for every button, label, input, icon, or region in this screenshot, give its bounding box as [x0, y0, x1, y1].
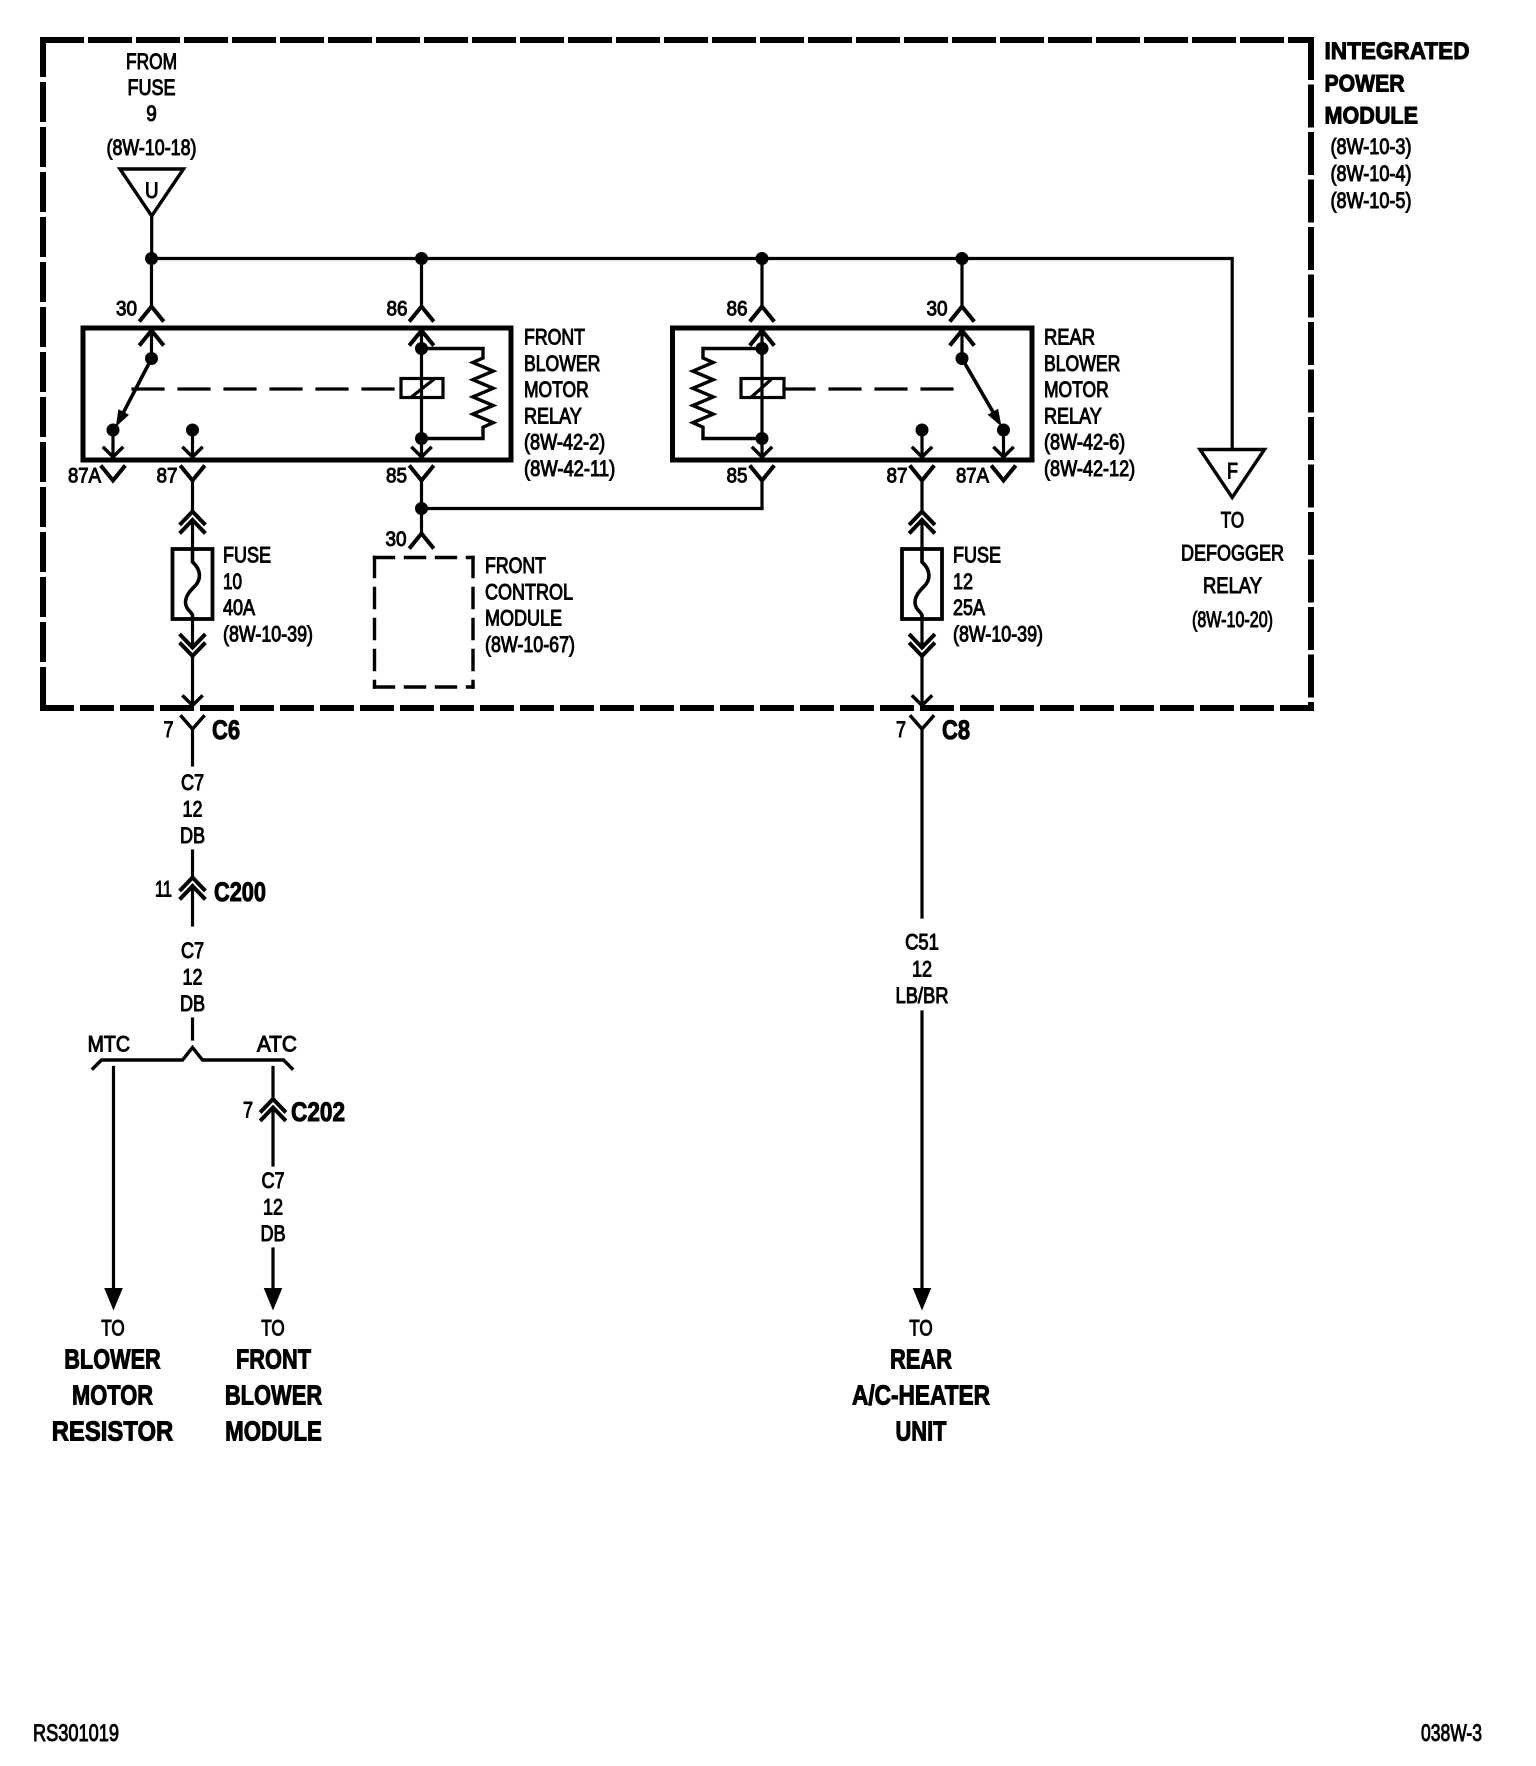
svg-text:MODULE: MODULE	[485, 606, 562, 631]
label: INTEGRATED POWER MODULE	[1325, 38, 1470, 213]
wire: coil through right	[760, 349, 763, 439]
svg-text:(8W-10-3): (8W-10-3)	[1331, 134, 1412, 159]
svg-text:(8W-42-12): (8W-42-12)	[1044, 456, 1135, 481]
svg-text:(8W-10-67): (8W-10-67)	[485, 632, 575, 657]
svg-text:DB: DB	[180, 823, 205, 848]
coil top junction right relay	[756, 342, 769, 355]
wire to rear a/c-heater unit	[920, 1012, 923, 1289]
wire: B+ bus to defogger relay corner	[152, 259, 1233, 450]
svg-text:A/C-HEATER: A/C-HEATER	[852, 1380, 990, 1411]
label: FROM FUSE 9 (8W-10-18)	[107, 49, 197, 160]
coil bottom junction right relay	[756, 432, 769, 445]
svg-text:MTC: MTC	[88, 1032, 130, 1057]
svg-text:TO: TO	[909, 1316, 932, 1341]
svg-text:85: 85	[727, 465, 748, 488]
arrow: 87A to box edge right	[1002, 430, 1005, 457]
label: TO DEFOGGER RELAY (8W-10-20)	[1181, 508, 1284, 633]
switch contact junction 87A right	[997, 424, 1010, 437]
wire: pin 30 to switch pivot	[150, 331, 153, 359]
wire: 87 left to fuse 10	[191, 481, 194, 513]
wire: triangle U down to bus	[150, 216, 153, 259]
switch arm (30 to 87A)	[124, 359, 152, 413]
wire label C51 12 LB/BR	[896, 930, 949, 1009]
relay coil winding (resistor zigzag) right relay	[693, 349, 762, 439]
pin 30 chevron inside left relay	[141, 331, 163, 345]
svg-text:TO: TO	[261, 1316, 284, 1341]
svg-text:UNIT: UNIT	[896, 1416, 947, 1447]
switch pivot junction	[145, 352, 158, 365]
label: TO FRONT BLOWER MODULE	[225, 1316, 322, 1447]
label: REAR BLOWER MOTOR RELAY	[1044, 325, 1135, 482]
power out triangle F (to defogger relay)	[1200, 450, 1265, 498]
svg-text:REAR: REAR	[890, 1344, 952, 1375]
brace split MTC/ATC	[93, 1048, 292, 1069]
wire: pin 86 to coil	[760, 331, 763, 349]
svg-text:12: 12	[182, 965, 202, 990]
svg-text:7: 7	[243, 1098, 253, 1123]
svg-text:25A: 25A	[953, 595, 985, 620]
svg-text:40A: 40A	[223, 595, 255, 620]
relay coil box symbol right relay	[741, 379, 784, 398]
svg-text:BLOWER: BLOWER	[64, 1344, 161, 1375]
wire: bus drop	[420, 259, 423, 307]
svg-text:86: 86	[387, 298, 408, 321]
svg-text:87: 87	[157, 465, 178, 488]
svg-text:DB: DB	[180, 991, 205, 1016]
inline connector chevrons above fuse 10	[181, 512, 204, 524]
front control module dashed box	[375, 558, 474, 688]
svg-text:DB: DB	[260, 1221, 285, 1246]
svg-text:FUSE: FUSE	[953, 543, 1001, 568]
junction 85 net	[415, 502, 428, 515]
wire: bus drop	[150, 259, 153, 307]
svg-text:FRONT: FRONT	[485, 553, 546, 578]
connector pin chevron	[411, 307, 433, 321]
svg-text:87: 87	[887, 465, 908, 488]
svg-text:(8W-42-2): (8W-42-2)	[524, 430, 605, 455]
svg-text:9: 9	[146, 101, 157, 126]
svg-text:12: 12	[912, 957, 932, 982]
svg-text:7: 7	[896, 717, 906, 742]
junction on bus at pin 30 right relay	[956, 252, 969, 265]
junction on bus at pin 86 right relay	[756, 252, 769, 265]
coil top junction	[415, 342, 428, 355]
arrow to front blower module	[264, 1288, 283, 1311]
connector C8 female half	[911, 717, 933, 730]
switch arm right relay (30 to 87A)	[962, 359, 993, 412]
svg-text:FUSE: FUSE	[128, 75, 176, 100]
wire: 87 right to fuse 12	[920, 481, 923, 513]
pin 87A connector chevron below relay	[993, 467, 1015, 481]
svg-text:LB/BR: LB/BR	[896, 983, 949, 1008]
svg-text:REAR: REAR	[1044, 325, 1095, 350]
arrow: coil 85 to box edge right	[760, 439, 763, 457]
svg-text:87A: 87A	[68, 465, 101, 488]
label: FRONT BLOWER MOTOR RELAY	[524, 325, 615, 482]
pin 86 chevron inside left relay	[411, 331, 433, 345]
svg-text:7: 7	[164, 717, 174, 742]
svg-text:BLOWER: BLOWER	[524, 351, 600, 376]
svg-text:(8W-10-39): (8W-10-39)	[953, 621, 1043, 646]
svg-text:(8W-42-11): (8W-42-11)	[524, 456, 615, 481]
label: FRONT CONTROL MODULE (8W-10-67)	[485, 553, 575, 657]
svg-text:038W-3: 038W-3	[1421, 1720, 1482, 1747]
wire label C7 12 DB	[180, 770, 205, 848]
svg-text:RELAY: RELAY	[524, 403, 582, 428]
connector pin chevron	[141, 307, 163, 321]
svg-text:RELAY: RELAY	[1203, 573, 1262, 598]
svg-text:(8W-10-20): (8W-10-20)	[1192, 607, 1273, 632]
svg-text:85: 85	[386, 465, 407, 488]
svg-text:10: 10	[223, 569, 242, 594]
arrow: 87 to box edge right	[920, 430, 923, 457]
svg-text:RS301019: RS301019	[33, 1720, 119, 1747]
svg-text:RELAY: RELAY	[1044, 403, 1102, 428]
svg-text:30: 30	[116, 298, 137, 321]
dashed actuation line left relay	[133, 387, 401, 390]
inline connector chevrons above fuse 12	[911, 512, 934, 524]
svg-text:C8: C8	[942, 715, 970, 745]
pin 85 connector chevron below relay	[751, 467, 773, 481]
junction on bus at pin 30 left relay	[145, 252, 158, 265]
svg-text:(8W-10-39): (8W-10-39)	[223, 621, 313, 646]
svg-text:C7: C7	[181, 770, 204, 795]
svg-text:12: 12	[182, 797, 202, 822]
arrow to blower motor resistor	[104, 1288, 123, 1311]
svg-text:MOTOR: MOTOR	[72, 1380, 153, 1411]
label: TO BLOWER MOTOR RESISTOR	[52, 1316, 174, 1447]
connector C6 female half	[182, 717, 204, 730]
svg-text:INTEGRATED: INTEGRATED	[1325, 38, 1470, 65]
svg-text:87A: 87A	[956, 465, 989, 488]
pin 85 connector chevron below relay	[411, 467, 433, 481]
wire: bus drop	[760, 259, 763, 307]
wire: pin 30 to switch pivot right relay	[960, 331, 963, 359]
inline connector chevrons below fuse 12	[911, 636, 934, 648]
rear blower motor relay box	[673, 328, 1033, 460]
coil bottom junction	[415, 432, 428, 445]
svg-text:FRONT: FRONT	[236, 1344, 311, 1375]
wire: 85 right relay down	[760, 481, 763, 509]
svg-text:(8W-10-18): (8W-10-18)	[107, 135, 197, 160]
svg-text:30: 30	[927, 298, 948, 321]
svg-text:TO: TO	[1221, 508, 1244, 533]
svg-text:MODULE: MODULE	[225, 1416, 322, 1447]
svg-text:C202: C202	[291, 1097, 345, 1127]
svg-text:TO: TO	[101, 1316, 124, 1341]
front blower motor relay box	[83, 328, 511, 460]
wire segment	[191, 851, 194, 878]
svg-text:ATC: ATC	[257, 1032, 297, 1057]
fuse F10 symbol	[173, 549, 213, 619]
arrow: 87 to box edge	[191, 430, 194, 457]
pin 87A connector chevron below relay	[102, 467, 124, 481]
wire: coil through	[420, 349, 423, 439]
wire: 85 crossover	[422, 507, 763, 510]
svg-text:FROM: FROM	[126, 49, 177, 74]
switch pivot junction right relay	[956, 352, 969, 365]
wire: pin 86 to coil	[420, 331, 423, 349]
relay coil winding (resistor zigzag) left relay	[422, 349, 494, 439]
svg-text:C6: C6	[212, 715, 240, 745]
svg-text:12: 12	[263, 1195, 283, 1220]
arrow: 87A to box edge	[111, 430, 114, 457]
wire label C7 12 DB (2)	[180, 938, 205, 1016]
arrow into connector C6	[184, 697, 202, 706]
fuse F12 symbol	[902, 549, 942, 619]
svg-text:DEFOGGER: DEFOGGER	[1181, 541, 1284, 566]
svg-text:(8W-42-6): (8W-42-6)	[1044, 430, 1125, 455]
svg-text:12: 12	[953, 569, 973, 594]
switch contact junction 87A	[107, 424, 120, 437]
wire segment below C202	[271, 1108, 274, 1166]
svg-text:BLOWER: BLOWER	[1044, 351, 1120, 376]
svg-text:86: 86	[727, 298, 748, 321]
svg-text:(8W-10-5): (8W-10-5)	[1331, 188, 1412, 213]
svg-text:C200: C200	[214, 877, 266, 907]
connector pin chevron	[951, 307, 973, 321]
contact junction 87	[186, 424, 199, 437]
label: FUSE 12 25A (8W-10-39)	[953, 543, 1043, 647]
svg-text:CONTROL: CONTROL	[485, 579, 573, 604]
svg-text:U: U	[145, 178, 159, 203]
svg-text:C7: C7	[261, 1168, 284, 1193]
svg-text:C51: C51	[905, 930, 939, 955]
svg-text:(8W-10-4): (8W-10-4)	[1331, 161, 1412, 186]
wire: fuse 12 down	[920, 619, 923, 648]
svg-text:MOTOR: MOTOR	[1044, 377, 1109, 402]
wire: bus drop	[960, 259, 963, 307]
pin 87 connector chevron below relay	[182, 467, 204, 481]
svg-text:BLOWER: BLOWER	[225, 1380, 322, 1411]
label: TO REAR A/C-HEATER UNIT	[852, 1316, 990, 1447]
svg-text:POWER: POWER	[1325, 71, 1405, 98]
pin 86 chevron inside right relay	[751, 331, 773, 345]
Integrated Power Module dashed border	[43, 40, 1314, 708]
wire segment below C200	[191, 886, 194, 925]
power source triangle U (from fuse 9)	[120, 169, 184, 216]
wire: ATC branch	[271, 1068, 274, 1101]
wire: 85 left relay down	[420, 481, 423, 509]
contact junction 87 right	[916, 424, 929, 437]
pin 87 connector chevron below relay	[911, 467, 933, 481]
pin 30 chevron inside right relay	[951, 331, 973, 345]
svg-text:11: 11	[155, 877, 172, 902]
FCM pin 30 chevron	[411, 534, 433, 548]
inline connector chevrons below fuse 10	[181, 636, 204, 648]
svg-text:C7: C7	[181, 938, 204, 963]
arrow into connector C8	[913, 697, 931, 706]
wire label C7 12 DB (3)	[260, 1168, 285, 1246]
junction on bus at pin 86 left relay	[415, 252, 428, 265]
connector C200 chevrons	[181, 878, 204, 890]
dashed actuation line right relay	[784, 387, 968, 390]
svg-text:MODULE: MODULE	[1325, 103, 1419, 130]
relay coil box symbol left relay	[401, 379, 443, 398]
svg-text:FRONT: FRONT	[524, 325, 585, 350]
svg-text:RESISTOR: RESISTOR	[52, 1416, 174, 1447]
svg-text:MOTOR: MOTOR	[524, 377, 589, 402]
label: FUSE 10 40A (8W-10-39)	[223, 543, 313, 647]
connector pin chevron	[751, 307, 773, 321]
wire: fuse 10 down	[191, 619, 194, 648]
wire segment to split	[191, 1019, 194, 1039]
arrow: coil 85 to box edge	[420, 439, 423, 457]
svg-text:30: 30	[386, 528, 407, 551]
arrow to rear a/c-heater unit	[913, 1288, 932, 1311]
connector C202 chevrons	[262, 1099, 285, 1111]
wire to front blower module	[271, 1249, 274, 1289]
svg-text:FUSE: FUSE	[223, 543, 271, 568]
wire: MTC branch	[112, 1068, 115, 1290]
svg-text:F: F	[1227, 459, 1238, 484]
wire: 85 net to FCM pin 30	[420, 509, 423, 534]
